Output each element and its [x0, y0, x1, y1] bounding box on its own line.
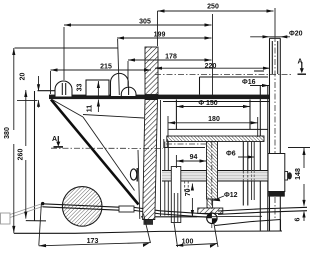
- svg-text:Φ12: Φ12: [224, 192, 238, 199]
- svg-text:215: 215: [100, 64, 112, 71]
- svg-text:70: 70: [185, 188, 192, 196]
- svg-text:Φ20: Φ20: [289, 31, 303, 38]
- svg-text:148: 148: [295, 168, 302, 180]
- svg-text:199: 199: [154, 32, 166, 39]
- svg-text:94: 94: [190, 154, 198, 161]
- svg-text:6: 6: [295, 217, 302, 221]
- svg-text:260: 260: [18, 149, 25, 161]
- svg-text:A: A: [52, 136, 57, 143]
- svg-text:220: 220: [205, 63, 217, 70]
- svg-text:33: 33: [77, 84, 84, 92]
- svg-text:305: 305: [139, 19, 151, 26]
- svg-text:173: 173: [87, 238, 99, 245]
- svg-text:100: 100: [182, 238, 194, 245]
- svg-text:20: 20: [20, 73, 27, 81]
- svg-text:380: 380: [4, 127, 11, 139]
- svg-text:250: 250: [207, 4, 219, 11]
- svg-text:180: 180: [208, 116, 220, 123]
- svg-text:178: 178: [165, 54, 177, 61]
- svg-text:11: 11: [87, 105, 94, 113]
- svg-text:Φ16: Φ16: [242, 79, 256, 86]
- svg-text:Φ6: Φ6: [226, 151, 236, 158]
- svg-text:Φ 150: Φ 150: [198, 100, 217, 107]
